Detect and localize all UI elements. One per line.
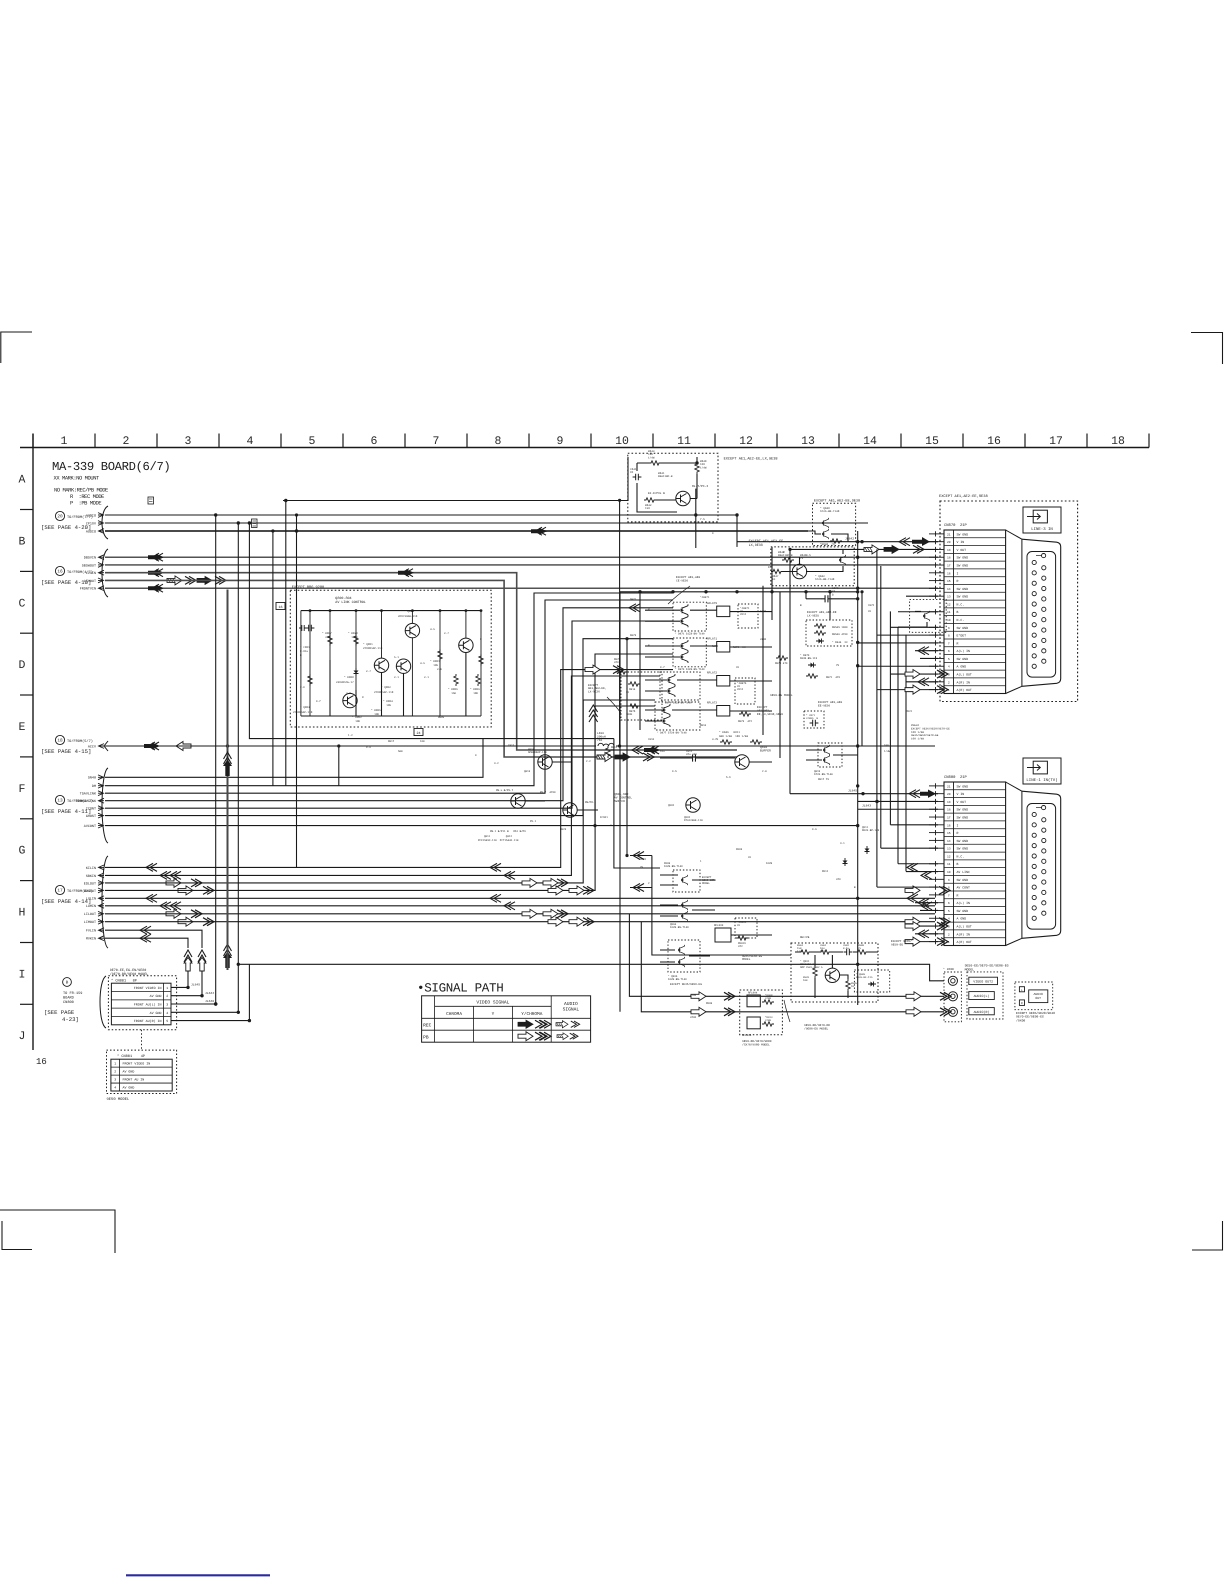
- svg-text:0.01u: 0.01u: [300, 650, 308, 653]
- block J9001 (dashed): [735, 918, 757, 938]
- photocoupler jumper box J8871 (dashed): [738, 604, 758, 628]
- svg-text:DM: DM: [92, 784, 96, 789]
- signal DBSVIN: [84, 555, 104, 561]
- resistor R870b: [776, 656, 788, 660]
- svg-text:JL842: JL842: [845, 538, 854, 541]
- wire CN870 pin 2 stub: [906, 681, 938, 683]
- svg-text:A(L) OUT: A(L) OUT: [957, 925, 972, 929]
- diode D911: [865, 846, 870, 854]
- junction: [295, 513, 298, 516]
- svg-text:75: 75: [858, 947, 862, 950]
- svg-text:A(R) OUT: A(R) OUT: [957, 940, 972, 944]
- wire CN870 pin 8 stub: [877, 634, 938, 636]
- svg-text:8: 8: [948, 635, 950, 638]
- column ruler numbers 1-18: [61, 435, 1125, 448]
- svg-text:I: I: [957, 823, 959, 827]
- arrow in FRONTVIN: [148, 584, 164, 592]
- brace: [102, 549, 108, 597]
- resistor R849: [782, 558, 794, 562]
- svg-text:16: 16: [278, 605, 282, 610]
- wire CN801 pin3 to JL840: [171, 1003, 216, 1005]
- svg-text:2.6: 2.6: [437, 668, 442, 671]
- signal TSAVLINK: [80, 791, 104, 797]
- connector CN870 21P with D-sub: [929, 523, 1061, 694]
- svg-text:LIVIN: LIVIN: [86, 571, 96, 576]
- wire CN801 pin5: [171, 964, 249, 1020]
- svg-text:4.5: 4.5: [420, 662, 425, 665]
- signal MVKIN: [86, 936, 104, 942]
- junction: [856, 744, 859, 747]
- svg-text:RL-7/P4-3: RL-7/P4-3: [692, 484, 708, 488]
- wire bundle row: [105, 670, 673, 868]
- arrow CN800 pin6: [918, 899, 929, 907]
- icon LINE-1 IN(TV): [1023, 758, 1061, 784]
- svg-text:6: 6: [371, 435, 378, 448]
- svg-text:A GND: A GND: [957, 665, 967, 669]
- wires Q810 cluster: [525, 758, 772, 810]
- junction: [856, 897, 859, 900]
- svg-text:5: 5: [948, 658, 950, 661]
- svg-text:F: F: [19, 783, 26, 796]
- transistor Q804: [459, 638, 473, 652]
- svg-text:3.2: 3.2: [494, 762, 499, 765]
- svg-text:LUMIN: LUMIN: [86, 904, 96, 909]
- arrow CN800 pin2: [918, 930, 929, 938]
- svg-text:100: 100: [803, 979, 808, 982]
- svg-text:*J8871: *J8871: [700, 596, 710, 599]
- svg-text:/9E80-EG MODEL: /9E80-EG MODEL: [804, 1026, 829, 1030]
- signal CP18V: [86, 521, 104, 527]
- arrows audio L: [691, 992, 706, 1001]
- junction: [828, 590, 831, 593]
- svg-text:3: 3: [114, 1078, 116, 1082]
- svg-text:14: 14: [863, 435, 877, 448]
- svg-text:75: 75: [640, 866, 644, 869]
- arrows mid G5 row6: [504, 902, 515, 910]
- svg-text:R: R: [957, 831, 959, 835]
- svg-text:SBKIN: SBKIN: [86, 874, 96, 879]
- svg-text:7: 7: [948, 642, 950, 645]
- svg-text:Q813: Q813: [524, 770, 531, 773]
- svg-text:17: 17: [57, 889, 63, 894]
- arrows CN800 pin3: [905, 922, 920, 931]
- signal DM: [92, 783, 104, 789]
- resistor R843: [649, 461, 661, 465]
- svg-text:EXCEPT AE1,AE2-EE,9E38: EXCEPT AE1,AE2-EE,9E38: [939, 494, 988, 499]
- arrow up chevrons+black on trunk: [223, 752, 232, 776]
- arrows audio R: [691, 1007, 706, 1016]
- arrow in ACCV: [144, 742, 160, 750]
- svg-text:3: 3: [185, 435, 192, 448]
- svg-text:24: 24: [416, 731, 420, 736]
- wire LIVOUT path: [105, 580, 737, 757]
- svg-text:LINE-3 IN: LINE-3 IN: [1031, 527, 1053, 532]
- svg-text:4.5: 4.5: [806, 554, 811, 557]
- svg-text:EDWOUT: EDWOUT: [84, 889, 96, 894]
- block RFL904/RFL905 (dashed): [740, 990, 783, 1037]
- resistor R820: [354, 634, 358, 646]
- svg-text:KBA11BP-B: KBA11BP-B: [658, 475, 673, 478]
- svg-text:5.1: 5.1: [394, 656, 399, 659]
- svg-text:AUDIO: AUDIO: [564, 1001, 578, 1007]
- junction: [856, 590, 859, 593]
- resistor R807: [328, 634, 332, 646]
- junction: [284, 499, 287, 502]
- wire G5 row long: [105, 921, 935, 923]
- svg-text:Y/CHROMA: Y/CHROMA: [521, 1011, 542, 1017]
- svg-text:4700: 4700: [690, 994, 697, 997]
- svg-text:FRONTVIN: FRONTVIN: [80, 587, 96, 592]
- svg-text:TO FR-159: TO FR-159: [63, 991, 82, 996]
- svg-text:* C801: * C801: [300, 646, 310, 649]
- fet Q840b: [822, 529, 828, 539]
- ref B TO FR-159 BOARD CN800: [44, 978, 82, 1023]
- svg-text:5.9: 5.9: [726, 776, 731, 779]
- svg-text:AV CONTROL: AV CONTROL: [614, 797, 632, 800]
- arrow in LIVIN: [148, 569, 164, 577]
- svg-text:1: 1: [61, 435, 68, 448]
- block Q871 near CN870 (dashed): [910, 600, 947, 633]
- signal LVLIN: [86, 896, 104, 902]
- arrows CN870 pin3: [905, 670, 920, 679]
- svg-text:LILOUT: LILOUT: [84, 912, 96, 917]
- svg-text:SW GND: SW GND: [957, 808, 969, 812]
- junction: [439, 609, 442, 612]
- svg-text:R817: R817: [388, 740, 395, 743]
- block AUDIO OUT (dashed): [1015, 982, 1053, 1010]
- svg-text:MODEL: MODEL: [702, 882, 710, 885]
- wire vertical x830: [829, 592, 831, 620]
- svg-text:4700: 4700: [765, 997, 772, 1000]
- junction JL845 b: [861, 792, 864, 795]
- svg-text:3.1: 3.1: [840, 842, 845, 845]
- svg-text:SW GND: SW GND: [957, 657, 969, 661]
- resistor D846: [720, 740, 732, 744]
- signal SBKIN: [86, 873, 104, 879]
- arrow CN870 pin2: [918, 678, 929, 686]
- svg-text:ACCV: ACCV: [88, 744, 97, 749]
- svg-text:•SIGNAL PATH: •SIGNAL PATH: [417, 982, 503, 996]
- svg-text:EXCEPT 9E35/9E50-EG: EXCEPT 9E35/9E50-EG: [670, 982, 702, 986]
- resistor R814: [628, 682, 640, 686]
- wire CN800 pin 2 stub: [915, 933, 938, 935]
- signal LIVIN: [86, 570, 104, 576]
- resistor R9819: [736, 936, 748, 940]
- wire top link y500: [283, 457, 628, 501]
- svg-text:* R802: * R802: [352, 716, 362, 719]
- svg-text:* R805: * R805: [371, 709, 381, 712]
- svg-text:4.7: 4.7: [610, 824, 615, 827]
- relay RFL903: [715, 928, 731, 942]
- corner crop mark bottom-right: [1192, 1221, 1223, 1250]
- junction: [856, 824, 859, 827]
- signal AUDIO: [86, 529, 104, 535]
- wire audio R out: [641, 922, 944, 1012]
- wire video out y964.3: [238, 964, 944, 981]
- junction: [329, 609, 332, 612]
- arrow FVLIN: [140, 926, 151, 934]
- fet Q904 pair: [681, 900, 687, 910]
- arrow up (black) at x227: [223, 944, 232, 968]
- wire vertical x806: [805, 592, 807, 599]
- junction JL845: [186, 986, 189, 989]
- svg-text:SWITCH: SWITCH: [614, 800, 625, 803]
- trunk x898: [897, 627, 899, 864]
- svg-text:56K: 56K: [398, 750, 403, 753]
- junction: [638, 590, 641, 593]
- wire CN870 pin 13 stub: [906, 595, 938, 597]
- svg-text:3: 3: [948, 926, 950, 929]
- svg-text:R: R: [957, 641, 959, 645]
- brace: [102, 768, 108, 843]
- svg-text:JL843: JL843: [862, 804, 871, 807]
- AV LINK vertical drops: [309, 611, 311, 716]
- wire G2 bus: [105, 587, 938, 589]
- svg-text:4: 4: [114, 1085, 116, 1089]
- svg-text:1/4W: 1/4W: [820, 950, 827, 953]
- svg-text:2.2: 2.2: [586, 760, 591, 763]
- svg-text:* J800: * J800: [943, 967, 954, 971]
- svg-text:ICONT: ICONT: [86, 807, 96, 812]
- relay RFL871: [717, 642, 730, 653]
- svg-text:* D871 S1Z8-BN-T140: * D871 S1Z8-BN-T140: [675, 632, 705, 635]
- wire bundle row: [105, 600, 673, 793]
- svg-text:4: 4: [247, 435, 254, 448]
- svg-text:CN870 21P: CN870 21P: [944, 523, 968, 528]
- svg-text:PB.L-B/P9.7: PB.L-B/P9.7: [496, 789, 514, 792]
- svg-text:16: 16: [987, 435, 1001, 448]
- wire vertical x338.8: [338, 746, 340, 786]
- svg-text:FROMAVLINK: FROMAVLINK: [76, 799, 97, 804]
- svg-text:[SEE PAGE 4-15]: [SEE PAGE 4-15]: [41, 748, 91, 755]
- svg-text:FRONT AU IN: FRONT AU IN: [123, 1078, 145, 1082]
- junction: [735, 513, 738, 516]
- capacitor C801: [306, 625, 315, 632]
- wires Q842: [783, 549, 843, 571]
- junction: [355, 609, 358, 612]
- fold mark bottom-left outer: [0, 1210, 115, 1253]
- svg-text:LX-9E36: LX-9E36: [588, 690, 600, 693]
- arrows mid G5 row4: [548, 886, 563, 895]
- svg-text:XX MARK:NO MOUNT: XX MARK:NO MOUNT: [54, 476, 101, 482]
- svg-text:2012: 2012: [737, 688, 744, 691]
- wire CN800 pin 16 stub: [890, 824, 938, 826]
- transistor Q800: [405, 623, 419, 637]
- trunk x906: [905, 635, 907, 872]
- svg-text:14: 14: [947, 840, 951, 843]
- wire bundle row: [105, 654, 673, 826]
- svg-text:6: 6: [948, 902, 950, 905]
- svg-text:2Y0001AP-118: 2Y0001AP-118: [293, 711, 313, 714]
- svg-text:19: 19: [947, 549, 951, 552]
- svg-text:MODEL: MODEL: [965, 967, 975, 971]
- svg-text:4700: 4700: [690, 1016, 697, 1019]
- capacitor C811: [689, 754, 699, 761]
- leader curve: [607, 697, 621, 713]
- relay RFL873: [717, 706, 730, 717]
- svg-text:* D876 S1Z8-BN-T140: * D876 S1Z8-BN-T140: [662, 701, 692, 704]
- svg-text:* Q801: * Q801: [363, 643, 373, 646]
- svg-text:A(R) OUT: A(R) OUT: [957, 688, 972, 692]
- svg-text:FRONT VIDEO IN: FRONT VIDEO IN: [123, 1062, 151, 1066]
- svg-text:H: H: [19, 907, 26, 920]
- svg-text:4700: 4700: [760, 638, 767, 641]
- svg-text:LX,9E38: LX,9E38: [749, 543, 763, 548]
- capacitor C870: [822, 595, 832, 602]
- svg-text:KILIN: KILIN: [86, 866, 96, 871]
- svg-text:D871: D871: [630, 598, 637, 601]
- svg-text:SW GND: SW GND: [957, 784, 969, 788]
- svg-text:1: 1: [948, 941, 950, 944]
- svg-text:CE-9E36: CE-9E36: [676, 579, 688, 582]
- junction: [860, 590, 863, 593]
- svg-text:9E50-EG: 9E50-EG: [891, 943, 903, 946]
- wires lower cluster: [660, 875, 772, 962]
- svg-text:SW GND: SW GND: [957, 847, 969, 851]
- svg-text:FRONT VIDEO IN: FRONT VIDEO IN: [134, 986, 162, 990]
- svg-text:A: A: [19, 474, 26, 487]
- arrows EDLOUT: [166, 878, 181, 887]
- junction: [856, 641, 859, 644]
- svg-text:5: 5: [166, 1019, 168, 1023]
- svg-text:RFL873: RFL873: [707, 702, 717, 705]
- block Q800-804 AV LINK CONTROL (dashed): [290, 590, 491, 727]
- svg-text:R026-BF-115: R026-BF-115: [856, 976, 873, 979]
- svg-text:7.5: 7.5: [700, 518, 705, 521]
- svg-text:75: 75: [800, 557, 804, 560]
- svg-text:9E50-EG MODEL: 9E50-EG MODEL: [770, 694, 793, 697]
- wire CN800 pin 6 stub: [915, 902, 938, 904]
- photocoupler D871 (dashed box): [673, 602, 706, 635]
- block Q906 (dashed): [668, 940, 700, 972]
- svg-text:R8546 4700: R8546 4700: [832, 633, 848, 636]
- svg-text:1/4W: 1/4W: [700, 466, 707, 469]
- resistor R812: [606, 746, 610, 758]
- svg-text:I: I: [957, 571, 959, 575]
- svg-text:AUDIO: AUDIO: [86, 513, 96, 518]
- svg-text:2: 2: [114, 1070, 116, 1074]
- resistor R803: [479, 654, 483, 666]
- arrows mid G5 row7: [522, 909, 537, 918]
- junction: [856, 597, 859, 600]
- svg-text:21: 21: [947, 533, 951, 536]
- arrow LVLIN: [146, 894, 157, 902]
- arrows right G5 c: [907, 894, 918, 902]
- relay AFL879: [717, 606, 730, 617]
- svg-text:V IN: V IN: [957, 792, 965, 796]
- svg-text:17: 17: [947, 565, 951, 568]
- svg-text:R901: R901: [640, 858, 647, 861]
- trunk x215.7: [215, 515, 217, 1004]
- svg-text:10: 10: [947, 619, 951, 622]
- diode D800: [354, 668, 359, 676]
- svg-text:GHOST: GHOST: [86, 814, 96, 819]
- junction: [237, 963, 240, 966]
- junction: [856, 963, 859, 966]
- svg-text:472: 472: [738, 945, 743, 948]
- transistor Q841: [676, 491, 690, 505]
- arrow CN870 pin6: [918, 647, 929, 655]
- arrows CN800 pin1: [905, 937, 920, 946]
- svg-text:1000: 1000: [760, 610, 767, 613]
- AV LINK bottom bus: [301, 715, 481, 717]
- svg-text:SW GND: SW GND: [957, 532, 969, 536]
- trunk x890.4: [889, 611, 891, 824]
- junction: [704, 590, 707, 593]
- arrows on y750: [632, 746, 643, 754]
- svg-text:N.C.: N.C.: [957, 854, 965, 858]
- svg-text:4700p B: 4700p B: [806, 717, 819, 720]
- svg-text:S535-BN-115: S535-BN-115: [800, 657, 818, 660]
- svg-text:75: 75: [611, 749, 615, 752]
- svg-text:Q801,902: Q801,902: [614, 793, 629, 796]
- signal LIMOUT: [84, 919, 104, 925]
- svg-text:17: 17: [947, 817, 951, 820]
- wire Q841 emitter drop: [695, 489, 697, 548]
- signal SN40: [88, 775, 104, 781]
- svg-text:A(L) OUT: A(L) OUT: [957, 673, 972, 677]
- svg-text:10K: 10K: [420, 740, 425, 743]
- svg-text:REC: REC: [423, 1023, 432, 1029]
- svg-text:[SEE PAGE 4-11]: [SEE PAGE 4-11]: [41, 808, 91, 815]
- svg-text:* D844 XX: * D844 XX: [832, 641, 848, 644]
- svg-text:VIDEO OUT2: VIDEO OUT2: [973, 980, 993, 984]
- svg-text:[SEE PAGE: [SEE PAGE: [44, 1009, 75, 1016]
- svg-text:9: 9: [557, 435, 564, 448]
- wire G2 bus: [105, 564, 938, 566]
- svg-text:2.1: 2.1: [394, 676, 399, 679]
- svg-text:A GND: A GND: [957, 917, 967, 921]
- wire AUDIO bus y515: [105, 514, 737, 516]
- wire G5 row long: [105, 913, 935, 915]
- connector CN801 8P table (9E70/9E80 models): [108, 968, 176, 1030]
- svg-text:AV GND: AV GND: [123, 1070, 135, 1074]
- transistor Q843: [792, 564, 806, 578]
- svg-text:R823: R823: [560, 828, 567, 831]
- svg-text:* R804: * R804: [383, 700, 393, 703]
- svg-text:* R809: * R809: [470, 688, 480, 691]
- svg-text:P9.1: P9.1: [530, 820, 537, 823]
- ref 20 TO/FROM(7/7) SEE PAGE 4-20: [41, 511, 93, 531]
- arrows right G5 b: [905, 886, 920, 895]
- wire CN801 pin2 to JL844: [171, 971, 202, 996]
- svg-text:R873 472: R873 472: [738, 720, 752, 723]
- svg-text:2012: 2012: [740, 613, 747, 616]
- svg-text:KBA11BP-B: KBA11BP-B: [778, 554, 793, 557]
- wire vertical x763: [762, 586, 764, 735]
- column ruler ticks: [33, 434, 1149, 448]
- RCA jack J800 video: [948, 976, 957, 985]
- svg-text:P901,C902 A: P901,C902 A: [806, 966, 823, 969]
- corner crop mark top-right: [1191, 333, 1223, 365]
- signal FROMAVLINK: [76, 798, 104, 804]
- diode D912: [843, 858, 848, 866]
- wire row y549.4: [790, 548, 938, 550]
- svg-text:* D873 S1Z8-BN-T140: * D873 S1Z8-BN-T140: [675, 668, 705, 671]
- svg-text:18: 18: [57, 739, 63, 744]
- svg-text:16: 16: [947, 572, 951, 575]
- signal KILIN: [86, 865, 104, 871]
- wires relay cluster: [645, 610, 772, 621]
- svg-text:4.7K: 4.7K: [712, 738, 719, 741]
- fold mark bottom-left inner: [2, 1221, 32, 1250]
- svg-text:SN40: SN40: [88, 776, 96, 781]
- arrow in DBSVIN: [148, 553, 164, 561]
- svg-text:EXCEPT BRG.9280: EXCEPT BRG.9280: [292, 585, 324, 590]
- svg-text:16: 16: [36, 1057, 47, 1067]
- block Q909 (dashed): [854, 970, 889, 992]
- icon LINE-3 IN: [1023, 507, 1061, 533]
